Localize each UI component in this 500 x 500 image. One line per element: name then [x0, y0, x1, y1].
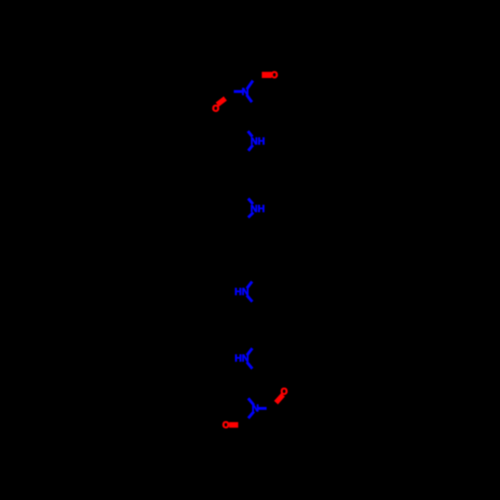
bond N3 to CH2 down-left (blue half) [248, 213, 253, 218]
svg-text:O: O [271, 70, 278, 80]
bond N1 to formyl carbon up-right (blue half) [247, 81, 253, 90]
svg-text:O: O [212, 104, 219, 114]
svg-text:O: O [222, 420, 229, 430]
bond N6 to left acetyl carbon down-left (blue half) [248, 412, 254, 419]
bond N5 to CH2 up-right (blue half) [247, 348, 252, 355]
bond chain CH to N2 (blue half, upper-left stub) [248, 131, 253, 137]
bond CH2 to N3 (blue half, upper-left stub) [248, 199, 253, 205]
double bond C=O top right (red half, horizontal) [262, 72, 272, 78]
bond N4 to CH2 up-right (blue half) [247, 282, 252, 289]
bond N5 to CH2 down-right (blue half) [247, 362, 253, 369]
bond N1 to left acetyl carbon (blue half) [234, 90, 244, 93]
double bond C=O bottom left (red half, horizontal) [229, 422, 238, 428]
double bond C=O left acetyl (red half, diagonal) [217, 98, 225, 104]
bond N6 to right acyl carbon (blue half, horizontal) [257, 407, 266, 410]
double bond C=O bottom right (red half, diagonal) [276, 395, 283, 403]
bond N4 to CH2 down-right (blue half) [247, 295, 253, 301]
bond N1 to chain CH2 down-right (blue half) [247, 95, 252, 102]
bond N2 to CH2 down-left (blue half) [248, 145, 253, 151]
svg-text:O: O [281, 387, 288, 397]
bond chain CH2 to N6 up-left (blue half) [248, 398, 254, 405]
